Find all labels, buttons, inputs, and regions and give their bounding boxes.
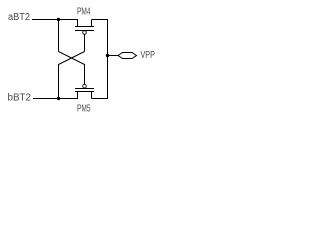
wire crossover down to bBT2 junction xyxy=(58,64,60,99)
wire crossover diagonal aBT2 to PM5 gate xyxy=(59,52,85,65)
svg-text:PM5: PM5 xyxy=(77,102,91,114)
svg-text:bBT2: bBT2 xyxy=(8,93,31,104)
transistor PM4 xyxy=(75,20,94,35)
wire aBT2 junction down to crossover xyxy=(58,20,60,52)
wire PM4 gate stub down xyxy=(84,34,86,51)
transistor PM5 xyxy=(75,84,94,98)
svg-text:aBT2: aBT2 xyxy=(8,12,30,23)
wire aBT2 to PM4 source xyxy=(32,19,78,21)
junction dot node VPP xyxy=(106,54,109,57)
wire to VPP port xyxy=(108,55,119,57)
wire bBT2 to PM5 source xyxy=(33,98,78,100)
wire right rail vertical xyxy=(107,20,109,99)
svg-text:PM4: PM4 xyxy=(77,5,91,17)
port symbol VPP xyxy=(118,53,137,59)
junction dot node bBT2 xyxy=(57,97,60,100)
junction dot node aBT2 xyxy=(57,18,60,21)
svg-text:VPP: VPP xyxy=(141,49,156,60)
wire PM5 drain to right rail xyxy=(92,98,109,100)
wire PM4 drain to right rail xyxy=(92,19,109,21)
wire crossover down to PM5 gate bubble xyxy=(84,64,86,84)
wire crossover diagonal PM4 gate to bBT2 xyxy=(59,52,85,65)
